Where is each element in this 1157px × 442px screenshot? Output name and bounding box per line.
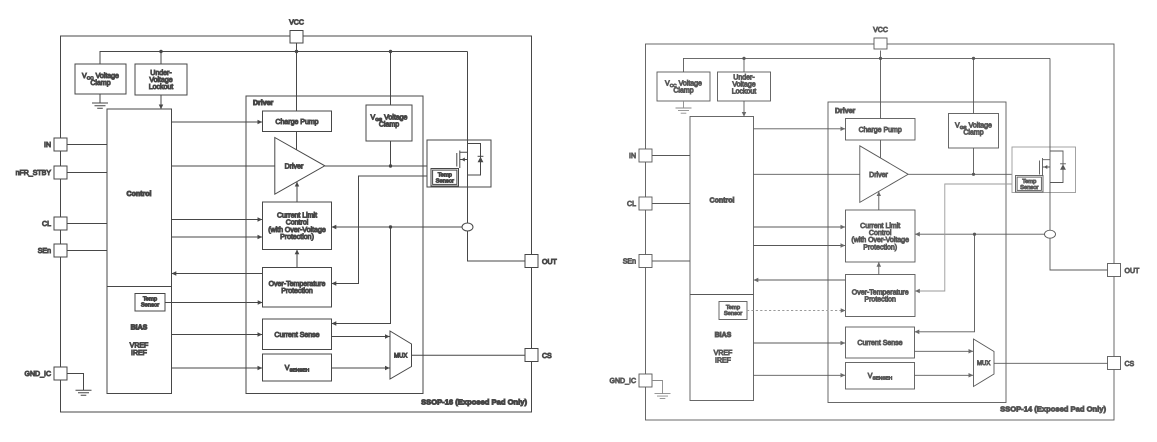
- svg-text:Sensor: Sensor: [724, 311, 742, 317]
- VCC bus wire: [684, 58, 1051, 72]
- svg-text:VREF: VREF: [714, 350, 733, 357]
- current limit control block: [263, 202, 332, 250]
- pin SEn: [639, 255, 652, 268]
- power MOSFET cell outline: [1012, 147, 1076, 193]
- svg-text:Current Limit: Current Limit: [277, 213, 317, 220]
- pin CS: [525, 349, 538, 362]
- svg-text:IREF: IREF: [131, 350, 147, 357]
- junction on VCC bus at VCC pin: [295, 50, 298, 53]
- pin SEn: [54, 244, 67, 257]
- svg-text:Clamp: Clamp: [90, 80, 110, 87]
- temp sensor block MOSFET: [1016, 176, 1044, 193]
- pin nFR_STBY: [54, 166, 67, 179]
- pin IN: [54, 138, 67, 151]
- svg-text:Driver: Driver: [835, 108, 856, 115]
- under-voltage lockout block: [135, 64, 187, 95]
- svg-text:Lockout: Lockout: [149, 84, 174, 91]
- wire Charge Pump to Driver amp: [296, 132, 298, 150]
- vsense block: [263, 354, 332, 381]
- VCC bus wire: [100, 52, 468, 65]
- wire bus to UVLO: [160, 52, 162, 65]
- VCC voltage clamp block: [75, 64, 126, 94]
- pin CL: [639, 197, 652, 210]
- wire Over-Temp to Control: [754, 279, 846, 281]
- ground under clamp: [676, 101, 692, 113]
- svg-text:Control: Control: [286, 220, 309, 227]
- pin OUT: [1108, 264, 1121, 277]
- svg-text:Driver: Driver: [253, 100, 274, 107]
- svg-text:Voltage: Voltage: [732, 82, 755, 89]
- pin CS: [1108, 357, 1121, 370]
- VCC voltage clamp block: [657, 72, 710, 101]
- node OUT sense ellipse: [462, 223, 473, 231]
- svg-text:OUT: OUT: [1125, 268, 1141, 275]
- vsense block: [846, 363, 915, 390]
- svg-text:Under-: Under-: [150, 70, 172, 77]
- wire UVLO to Control: [160, 95, 162, 109]
- junction on VCC bus at VGS clamp: [972, 57, 975, 60]
- junction OUT sense: [973, 233, 976, 236]
- wire BIAS to Vsense: [754, 374, 846, 376]
- drain source wire VCC to OUT: [1050, 58, 1108, 270]
- svg-text:Protection: Protection: [864, 297, 896, 304]
- VGS voltage clamp block: [366, 105, 412, 141]
- wire CL to Control: [652, 203, 690, 205]
- wire MOSFET temp sensor to Over-Temp: [915, 184, 1015, 291]
- junction on VCC bus at VGS clamp: [389, 50, 392, 53]
- svg-text:Clamp: Clamp: [963, 130, 983, 137]
- current sense block: [263, 319, 332, 350]
- ground under clamp: [92, 94, 108, 108]
- wire junction to Current Sense: [915, 234, 975, 332]
- wire IN to Control: [67, 144, 107, 146]
- wire MUX to CS pin: [412, 354, 526, 356]
- wire MOSFET temp sensor to Over-Temp: [332, 176, 431, 284]
- svg-text:Voltage: Voltage: [149, 77, 172, 84]
- pin IN: [639, 149, 652, 162]
- wire SEn to Control: [67, 250, 107, 252]
- ground GND_IC: [655, 394, 671, 399]
- wire Control to Current Limit 2: [754, 245, 846, 247]
- junction on VCC bus at UVLO: [159, 50, 162, 53]
- svg-text:MUX: MUX: [977, 361, 990, 367]
- svg-text:Lockout: Lockout: [732, 89, 757, 96]
- wire VCC pin to Charge Pump: [880, 51, 882, 119]
- svg-text:SEn: SEn: [38, 248, 51, 255]
- svg-text:(with Over-Voltage: (with Over-Voltage: [851, 237, 909, 244]
- pin CL: [54, 217, 67, 230]
- MUX: [390, 331, 412, 379]
- wire Current Sense to MUX: [915, 350, 974, 352]
- pin VCC: [290, 31, 303, 44]
- svg-text:Over-Temperature: Over-Temperature: [269, 281, 326, 288]
- wire Charge Pump to Driver amp: [880, 140, 882, 158]
- svg-text:CS: CS: [1125, 361, 1135, 368]
- wire bus to VGS clamp: [390, 52, 392, 106]
- wire Control to Driver amp: [172, 165, 275, 167]
- wire MUX to CS pin: [994, 362, 1108, 364]
- svg-text:GND_IC: GND_IC: [610, 378, 636, 385]
- svg-text:CL: CL: [42, 221, 51, 228]
- svg-text:OUT: OUT: [542, 259, 558, 266]
- svg-text:Current Limit: Current Limit: [860, 223, 900, 230]
- pin VCC: [874, 38, 887, 49]
- svg-text:Protection): Protection): [280, 234, 314, 241]
- svg-text:MUX: MUX: [394, 353, 407, 359]
- svg-text:Charge Pump: Charge Pump: [859, 127, 902, 134]
- svg-text:CS: CS: [542, 353, 552, 360]
- wire nFR_STBY to Control: [67, 172, 107, 174]
- wire Current Limit to Driver amp: [296, 182, 298, 202]
- wire SEn to Control: [652, 260, 690, 262]
- wire bus to VGS clamp: [973, 58, 975, 113]
- pin OUT: [525, 255, 538, 268]
- ground GND_IC: [76, 390, 92, 395]
- current sense block: [846, 327, 915, 358]
- svg-text:Driver: Driver: [285, 163, 304, 170]
- over-temperature protection block: [263, 268, 332, 308]
- svg-text:Protection): Protection): [863, 244, 897, 251]
- junction gate net: [972, 173, 975, 176]
- pin GND_IC: [639, 374, 652, 387]
- charge pump block: [846, 119, 916, 141]
- wire Control to Driver amp: [754, 173, 860, 175]
- temp sensor block MOSFET: [431, 169, 459, 187]
- svg-text:Clamp: Clamp: [673, 88, 693, 95]
- wire GND_IC to ground: [67, 374, 84, 391]
- Driver block outline: [246, 96, 423, 394]
- wire gate net Driver amp to MOSFET: [325, 165, 457, 167]
- svg-text:BIAS: BIAS: [131, 325, 148, 332]
- svg-text:BIAS: BIAS: [715, 332, 732, 339]
- VGS voltage clamp block: [949, 114, 999, 149]
- outer IC boundary SSOP-16: [61, 36, 532, 412]
- svg-text:Sensor: Sensor: [141, 303, 159, 309]
- junction on VCC bus at UVLO: [742, 57, 745, 60]
- svg-text:Current Sense: Current Sense: [857, 340, 902, 347]
- wire Over-Temp to Current Limit: [296, 250, 298, 268]
- wire BIAS to Current Sense: [172, 334, 263, 336]
- svg-text:(with Over-Voltage: (with Over-Voltage: [268, 227, 326, 234]
- wire GND_IC to ground: [652, 381, 663, 394]
- wire CL to Control: [67, 223, 107, 225]
- wire Vsense to MUX: [332, 367, 390, 369]
- svg-text:Clamp: Clamp: [379, 122, 399, 129]
- node OUT sense ellipse: [1045, 230, 1056, 238]
- svg-text:Sensor: Sensor: [436, 178, 454, 184]
- wire UVLO to Control: [743, 101, 745, 117]
- svg-text:SSOP-16 (Exposed Pad Only): SSOP-16 (Exposed Pad Only): [421, 398, 527, 407]
- wire bus to UVLO: [743, 58, 745, 72]
- svg-text:Charge Pump: Charge Pump: [275, 119, 318, 126]
- svg-text:VCC: VCC: [873, 27, 888, 34]
- svg-text:IREF: IREF: [715, 358, 731, 365]
- over-temperature protection block: [846, 275, 916, 317]
- wire temp sensor to Over-Temp dashed: [747, 310, 845, 312]
- svg-text:Control: Control: [127, 191, 152, 198]
- body diode D2: [1050, 151, 1063, 183]
- op-amp Driver: [275, 138, 325, 195]
- svg-text:Control: Control: [869, 230, 892, 237]
- op-amp Driver: [860, 146, 908, 203]
- wire gate net Driver amp to MOSFET: [908, 173, 1039, 175]
- wire junction to Current Sense: [332, 227, 391, 324]
- wire OUT sense to Current Limit: [915, 233, 1044, 235]
- svg-text:Sensor: Sensor: [1020, 185, 1038, 191]
- under-voltage lockout block: [718, 72, 771, 101]
- junction OUT sense: [389, 225, 392, 228]
- wire OUT sense to Current Limit: [332, 226, 462, 228]
- svg-text:IN: IN: [44, 142, 51, 149]
- svg-text:Under-: Under-: [733, 75, 755, 82]
- wire Control to Current Limit 2: [172, 236, 263, 238]
- svg-text:VCC: VCC: [289, 20, 304, 27]
- pin GND_IC: [54, 367, 67, 380]
- junction gate net: [389, 164, 392, 167]
- MUX: [974, 339, 995, 387]
- power MOSFET cell outline: [427, 140, 491, 187]
- wire Current Limit to Driver amp: [878, 192, 880, 210]
- body diode D1: [468, 144, 481, 176]
- drain source wire VCC to OUT: [468, 52, 526, 262]
- temp sensor block BIAS: [719, 302, 747, 320]
- wire IN to Control: [652, 155, 690, 157]
- Control block: [107, 109, 172, 394]
- wire Control to Current Limit 1: [754, 226, 846, 228]
- transistor Q2: [1040, 158, 1051, 176]
- wire temp sensor to Over-Temp: [165, 302, 262, 304]
- temp sensor block BIAS: [135, 294, 165, 312]
- svg-text:SSOP-14 (Exposed Pad Only): SSOP-14 (Exposed Pad Only): [1000, 405, 1106, 414]
- wire Over-Temp to Current Limit: [878, 262, 880, 274]
- svg-text:nFR_STBY: nFR_STBY: [16, 170, 52, 177]
- junction on VCC bus at VCC pin: [879, 57, 882, 60]
- svg-text:Current Sense: Current Sense: [274, 332, 319, 339]
- wire Over-Temp to Control: [172, 273, 263, 275]
- wire VCC pin to Charge Pump: [296, 42, 298, 111]
- wire Control to Current Limit 1: [172, 219, 263, 221]
- wire VGS clamp to gate net: [390, 141, 392, 166]
- svg-text:IN: IN: [629, 153, 636, 160]
- charge pump block: [263, 111, 332, 132]
- transistor Q1: [457, 151, 468, 169]
- wire Control to Charge Pump: [172, 121, 263, 123]
- svg-text:Protection: Protection: [281, 288, 313, 295]
- svg-text:CL: CL: [627, 201, 636, 208]
- current limit control block: [846, 210, 916, 262]
- svg-text:VREF: VREF: [130, 343, 149, 350]
- Control block: [690, 117, 754, 401]
- Driver block outline: [828, 102, 1006, 403]
- svg-text:Driver: Driver: [869, 172, 888, 179]
- wire VGS clamp to gate net: [973, 148, 975, 174]
- wire Current Sense to MUX: [332, 336, 390, 338]
- wire Vsense to MUX: [915, 374, 974, 376]
- wire BIAS to Vsense: [172, 367, 263, 369]
- svg-text:Control: Control: [710, 198, 735, 205]
- outer IC boundary SSOP-14: [646, 44, 1115, 420]
- svg-text:Over-Temperature: Over-Temperature: [852, 290, 909, 297]
- wire BIAS to Current Sense: [754, 342, 846, 344]
- svg-text:SEn: SEn: [623, 259, 636, 266]
- svg-text:GND_IC: GND_IC: [25, 371, 51, 378]
- wire Control to Charge Pump: [754, 128, 846, 130]
